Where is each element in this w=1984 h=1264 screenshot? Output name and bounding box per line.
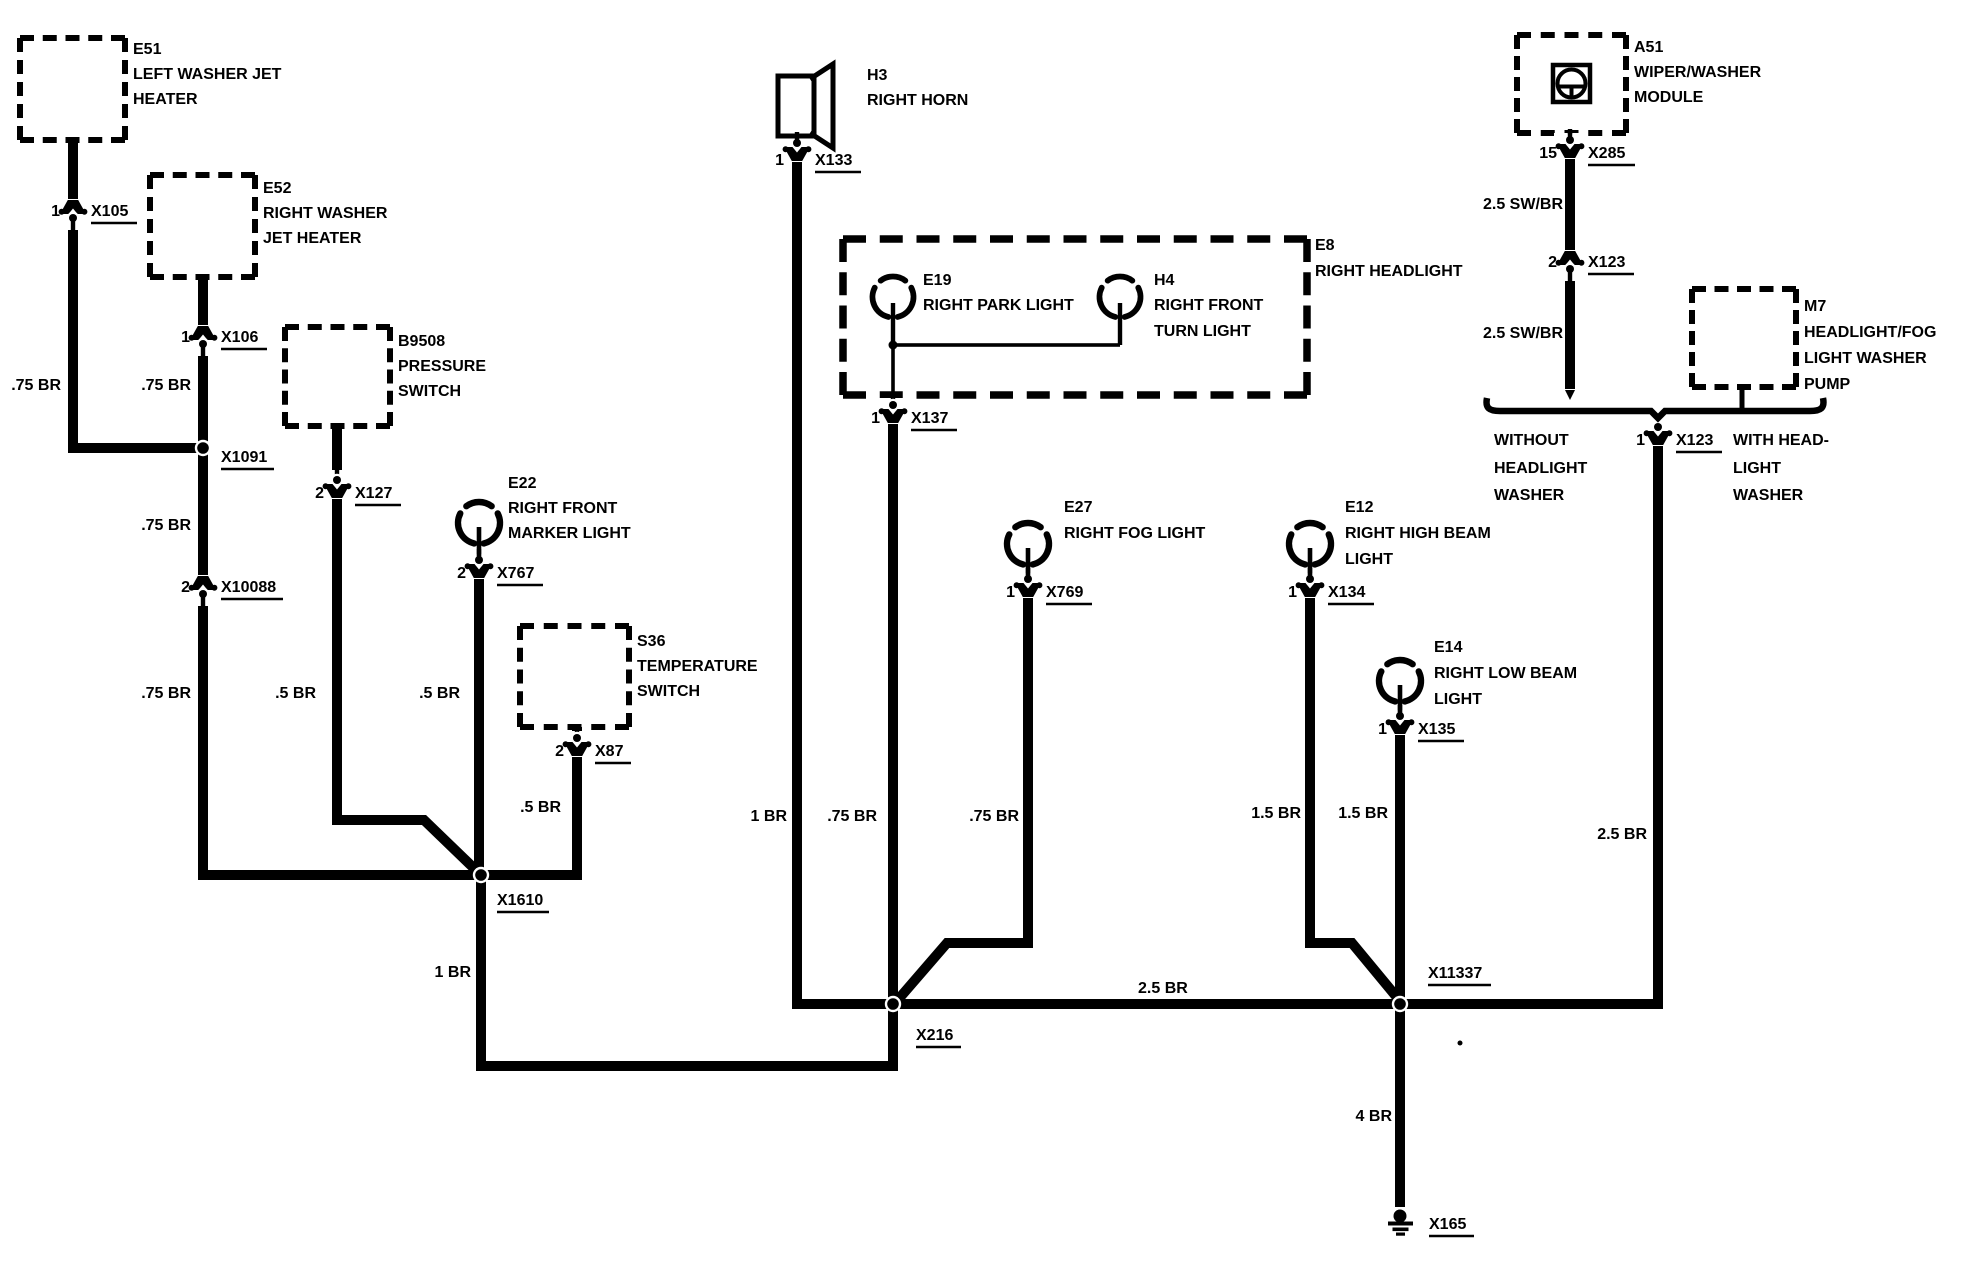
svg-text:.5 BR: .5 BR	[520, 799, 561, 816]
svg-text:RIGHT FOG LIGHT: RIGHT FOG LIGHT	[1064, 525, 1206, 542]
svg-text:X767: X767	[497, 565, 534, 582]
svg-text:RIGHT HORN: RIGHT HORN	[867, 92, 968, 109]
svg-text:X133: X133	[815, 152, 852, 169]
svg-text:M7: M7	[1804, 298, 1826, 315]
svg-text:.75 BR: .75 BR	[969, 808, 1019, 825]
svg-text:1: 1	[871, 410, 880, 427]
svg-text:X127: X127	[355, 485, 392, 502]
svg-text:WASHER: WASHER	[1733, 487, 1804, 504]
svg-text:E22: E22	[508, 475, 537, 492]
svg-text:H4: H4	[1154, 272, 1175, 289]
svg-text:PUMP: PUMP	[1804, 376, 1851, 393]
svg-text:X123: X123	[1588, 254, 1625, 271]
svg-text:A51: A51	[1634, 39, 1663, 56]
svg-text:TURN LIGHT: TURN LIGHT	[1154, 323, 1251, 340]
svg-text:1: 1	[775, 152, 784, 169]
svg-text:E27: E27	[1064, 499, 1093, 516]
svg-text:RIGHT HEADLIGHT: RIGHT HEADLIGHT	[1315, 263, 1463, 280]
svg-text:B9508: B9508	[398, 333, 445, 350]
svg-text:WIPER/WASHER: WIPER/WASHER	[1634, 64, 1762, 81]
svg-text:H3: H3	[867, 67, 888, 84]
svg-text:X165: X165	[1429, 1216, 1466, 1233]
svg-text:.5 BR: .5 BR	[275, 685, 316, 702]
svg-text:TEMPERATURE: TEMPERATURE	[637, 658, 758, 675]
svg-text:E14: E14	[1434, 639, 1463, 656]
svg-text:SWITCH: SWITCH	[398, 383, 461, 400]
svg-text:S36: S36	[637, 633, 666, 650]
svg-text:1 BR: 1 BR	[751, 808, 788, 825]
svg-text:X137: X137	[911, 410, 948, 427]
svg-text:X105: X105	[91, 203, 128, 220]
svg-text:2: 2	[181, 579, 190, 596]
svg-text:HEADLIGHT: HEADLIGHT	[1494, 460, 1588, 477]
svg-text:2: 2	[555, 743, 564, 760]
svg-text:WITHOUT: WITHOUT	[1494, 432, 1569, 449]
svg-text:2.5 BR: 2.5 BR	[1138, 980, 1188, 997]
svg-text:.75 BR: .75 BR	[141, 377, 191, 394]
svg-text:X285: X285	[1588, 145, 1625, 162]
svg-text:LEFT WASHER JET: LEFT WASHER JET	[133, 66, 282, 83]
svg-text:X135: X135	[1418, 721, 1455, 738]
svg-text:.75 BR: .75 BR	[141, 517, 191, 534]
svg-text:HEADLIGHT/FOG: HEADLIGHT/FOG	[1804, 324, 1936, 341]
svg-text:X769: X769	[1046, 584, 1083, 601]
svg-text:LIGHT: LIGHT	[1733, 460, 1781, 477]
svg-text:X11337: X11337	[1428, 965, 1482, 982]
svg-text:1.5 BR: 1.5 BR	[1251, 805, 1301, 822]
svg-text:4 BR: 4 BR	[1356, 1108, 1393, 1125]
svg-text:MODULE: MODULE	[1634, 89, 1704, 106]
svg-text:1: 1	[181, 329, 190, 346]
svg-text:X216: X216	[916, 1027, 953, 1044]
svg-text:.75 BR: .75 BR	[827, 808, 877, 825]
svg-text:LIGHT: LIGHT	[1345, 551, 1393, 568]
svg-text:WITH HEAD-: WITH HEAD-	[1733, 432, 1829, 449]
svg-text:1: 1	[1288, 584, 1297, 601]
svg-text:1: 1	[1636, 432, 1645, 449]
svg-text:2.5 BR: 2.5 BR	[1597, 826, 1647, 843]
svg-text:1 BR: 1 BR	[435, 964, 472, 981]
svg-text:X1610: X1610	[497, 892, 543, 909]
svg-text:LIGHT: LIGHT	[1434, 691, 1482, 708]
svg-text:1: 1	[1006, 584, 1015, 601]
svg-text:E52: E52	[263, 180, 292, 197]
svg-text:RIGHT PARK LIGHT: RIGHT PARK LIGHT	[923, 297, 1074, 314]
svg-text:MARKER LIGHT: MARKER LIGHT	[508, 525, 631, 542]
svg-text:WASHER: WASHER	[1494, 487, 1565, 504]
svg-text:.75 BR: .75 BR	[11, 377, 61, 394]
svg-text:E51: E51	[133, 41, 162, 58]
svg-text:HEATER: HEATER	[133, 91, 198, 108]
svg-text:RIGHT FRONT: RIGHT FRONT	[508, 500, 618, 517]
svg-text:15: 15	[1539, 145, 1557, 162]
svg-text:E8: E8	[1315, 237, 1335, 254]
svg-text:RIGHT HIGH BEAM: RIGHT HIGH BEAM	[1345, 525, 1491, 542]
svg-text:2: 2	[457, 565, 466, 582]
svg-text:.5 BR: .5 BR	[419, 685, 460, 702]
svg-text:X134: X134	[1328, 584, 1365, 601]
svg-text:E19: E19	[923, 272, 952, 289]
svg-text:JET HEATER: JET HEATER	[263, 230, 362, 247]
svg-text:RIGHT WASHER: RIGHT WASHER	[263, 205, 388, 222]
svg-text:X106: X106	[221, 329, 258, 346]
svg-text:X123: X123	[1676, 432, 1713, 449]
svg-text:.75 BR: .75 BR	[141, 685, 191, 702]
svg-text:X87: X87	[595, 743, 624, 760]
svg-text:PRESSURE: PRESSURE	[398, 358, 486, 375]
svg-text:X1091: X1091	[221, 449, 267, 466]
svg-text:RIGHT FRONT: RIGHT FRONT	[1154, 297, 1264, 314]
svg-text:1.5 BR: 1.5 BR	[1338, 805, 1388, 822]
svg-text:2.5 SW/BR: 2.5 SW/BR	[1483, 325, 1563, 342]
svg-text:SWITCH: SWITCH	[637, 683, 700, 700]
svg-text:1: 1	[51, 203, 60, 220]
svg-text:RIGHT LOW BEAM: RIGHT LOW BEAM	[1434, 665, 1577, 682]
svg-text:1: 1	[1378, 721, 1387, 738]
svg-text:2: 2	[315, 485, 324, 502]
svg-text:LIGHT WASHER: LIGHT WASHER	[1804, 350, 1927, 367]
svg-text:2: 2	[1548, 254, 1557, 271]
svg-text:2.5 SW/BR: 2.5 SW/BR	[1483, 196, 1563, 213]
svg-text:E12: E12	[1345, 499, 1374, 516]
svg-text:X10088: X10088	[221, 579, 276, 596]
